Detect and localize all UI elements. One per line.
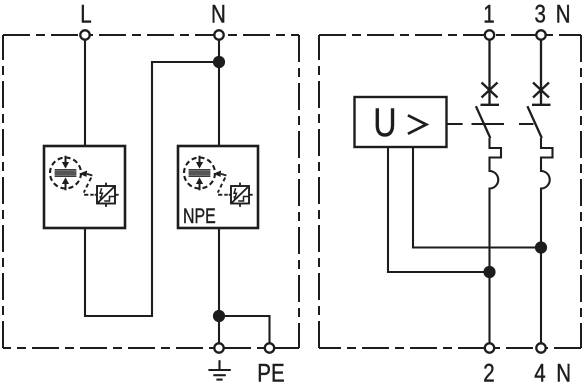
svg-text:4: 4	[534, 359, 546, 387]
svg-text:N: N	[556, 359, 571, 387]
svg-text:2: 2	[483, 359, 494, 387]
svg-text:U: U	[373, 100, 396, 145]
svg-text:N: N	[556, 0, 571, 28]
svg-text:N: N	[211, 0, 226, 28]
svg-text:1: 1	[483, 0, 494, 28]
svg-text:NPE: NPE	[183, 205, 216, 229]
svg-text:PE: PE	[257, 359, 284, 387]
svg-text:L: L	[80, 0, 91, 28]
svg-text:3: 3	[535, 0, 546, 28]
